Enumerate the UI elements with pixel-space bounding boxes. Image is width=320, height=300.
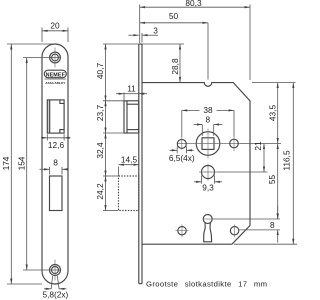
svg-text:43,5: 43,5	[267, 105, 277, 122]
dim 55	[277, 144, 279, 220]
svg-text:80,3: 80,3	[185, 0, 202, 8]
bottom fixing hole left 6,5	[178, 227, 186, 235]
svg-text:8: 8	[205, 114, 210, 124]
dim 174 (left outer)	[7, 43, 52, 45]
dim 6,5(4x) on upper-left hole	[176, 147, 178, 154]
svg-text:NEMEF: NEMEF	[46, 72, 66, 78]
svg-text:50: 50	[169, 11, 179, 21]
keyhole	[203, 215, 212, 224]
svg-text:23,7: 23,7	[95, 105, 105, 122]
follower (square spindle hub)	[196, 132, 220, 156]
dim 8 (follower square)	[201, 125, 203, 137]
dim 154 (screw hole centers)	[26, 58, 28, 271]
dim 80,3 (top)	[139, 5, 141, 44]
svg-text:Grootste slotkastdikte 17 mm: Grootste slotkastdikte 17 mm	[146, 279, 267, 288]
dim 116,5	[292, 83, 294, 245]
svg-text:12,6: 12,6	[48, 140, 65, 150]
svg-text:14,5: 14,5	[121, 154, 138, 164]
dim 20 (top)	[41, 28, 43, 43]
svg-text:24,2: 24,2	[95, 183, 105, 200]
fixing hole 6,5 upper-left	[177, 139, 186, 148]
dim 14,5 (deadbolt protrusion)	[118, 167, 120, 176]
svg-text:8: 8	[53, 157, 58, 167]
deadbolt front view	[50, 176, 63, 211]
svg-text:28,8: 28,8	[170, 58, 180, 75]
dim 43,5	[277, 83, 279, 144]
dim 5,8(2x)	[51, 276, 52, 289]
svg-text:11: 11	[127, 83, 136, 93]
svg-text:3: 3	[153, 25, 158, 35]
latch cutout front view	[47, 100, 49, 133]
svg-text:5,8(2x): 5,8(2x)	[42, 289, 68, 299]
faceplate side strip	[139, 44, 142, 284]
svg-text:55: 55	[267, 175, 277, 185]
top screw hole	[50, 52, 61, 63]
hole 9,3	[202, 166, 215, 179]
dim 38 (hole spacing)	[181, 110, 183, 137]
dim 8 (keyhole to holes)	[277, 206, 279, 220]
lock case outline with follower notch and corner cuts	[142, 83, 250, 245]
svg-text:21: 21	[253, 141, 263, 151]
bottom fixing hole right 6,5	[230, 227, 238, 235]
dim 9,3	[201, 176, 203, 184]
dim 3 (faceplate thickness)	[141, 33, 143, 43]
right extension lines	[252, 82, 296, 84]
svg-text:154: 154	[16, 156, 26, 170]
dim 8 (deadbolt width)	[49, 167, 51, 175]
fixing hole 6,5 upper-right	[230, 139, 239, 148]
svg-text:9,3: 9,3	[202, 183, 214, 193]
dim 11 (latch protrusion)	[123, 93, 125, 101]
deadbolt side view (dotted = extended)	[119, 176, 139, 211]
bottom screw hole	[50, 265, 61, 276]
svg-text:8: 8	[270, 220, 275, 230]
svg-text:6,5(4x): 6,5(4x)	[169, 153, 195, 163]
left dim column: 40,7 / 23,7 / 32,4 / 24,2	[103, 100, 124, 102]
svg-text:174: 174	[1, 156, 11, 170]
svg-text:ASSA ABLOY: ASSA ABLOY	[45, 81, 66, 85]
latch bolt side view	[124, 101, 139, 133]
svg-text:32,4: 32,4	[95, 142, 105, 159]
svg-text:40,7: 40,7	[95, 63, 105, 80]
svg-text:20: 20	[50, 20, 60, 30]
faceplate outline	[42, 44, 68, 284]
dim 28,8	[103, 43, 184, 45]
dim 21	[263, 144, 265, 173]
dim 50 (backset)	[207, 23, 209, 80]
NEMEF logo oval	[44, 70, 66, 78]
dim 12,6	[46, 134, 48, 140]
svg-text:116,5: 116,5	[282, 150, 292, 171]
